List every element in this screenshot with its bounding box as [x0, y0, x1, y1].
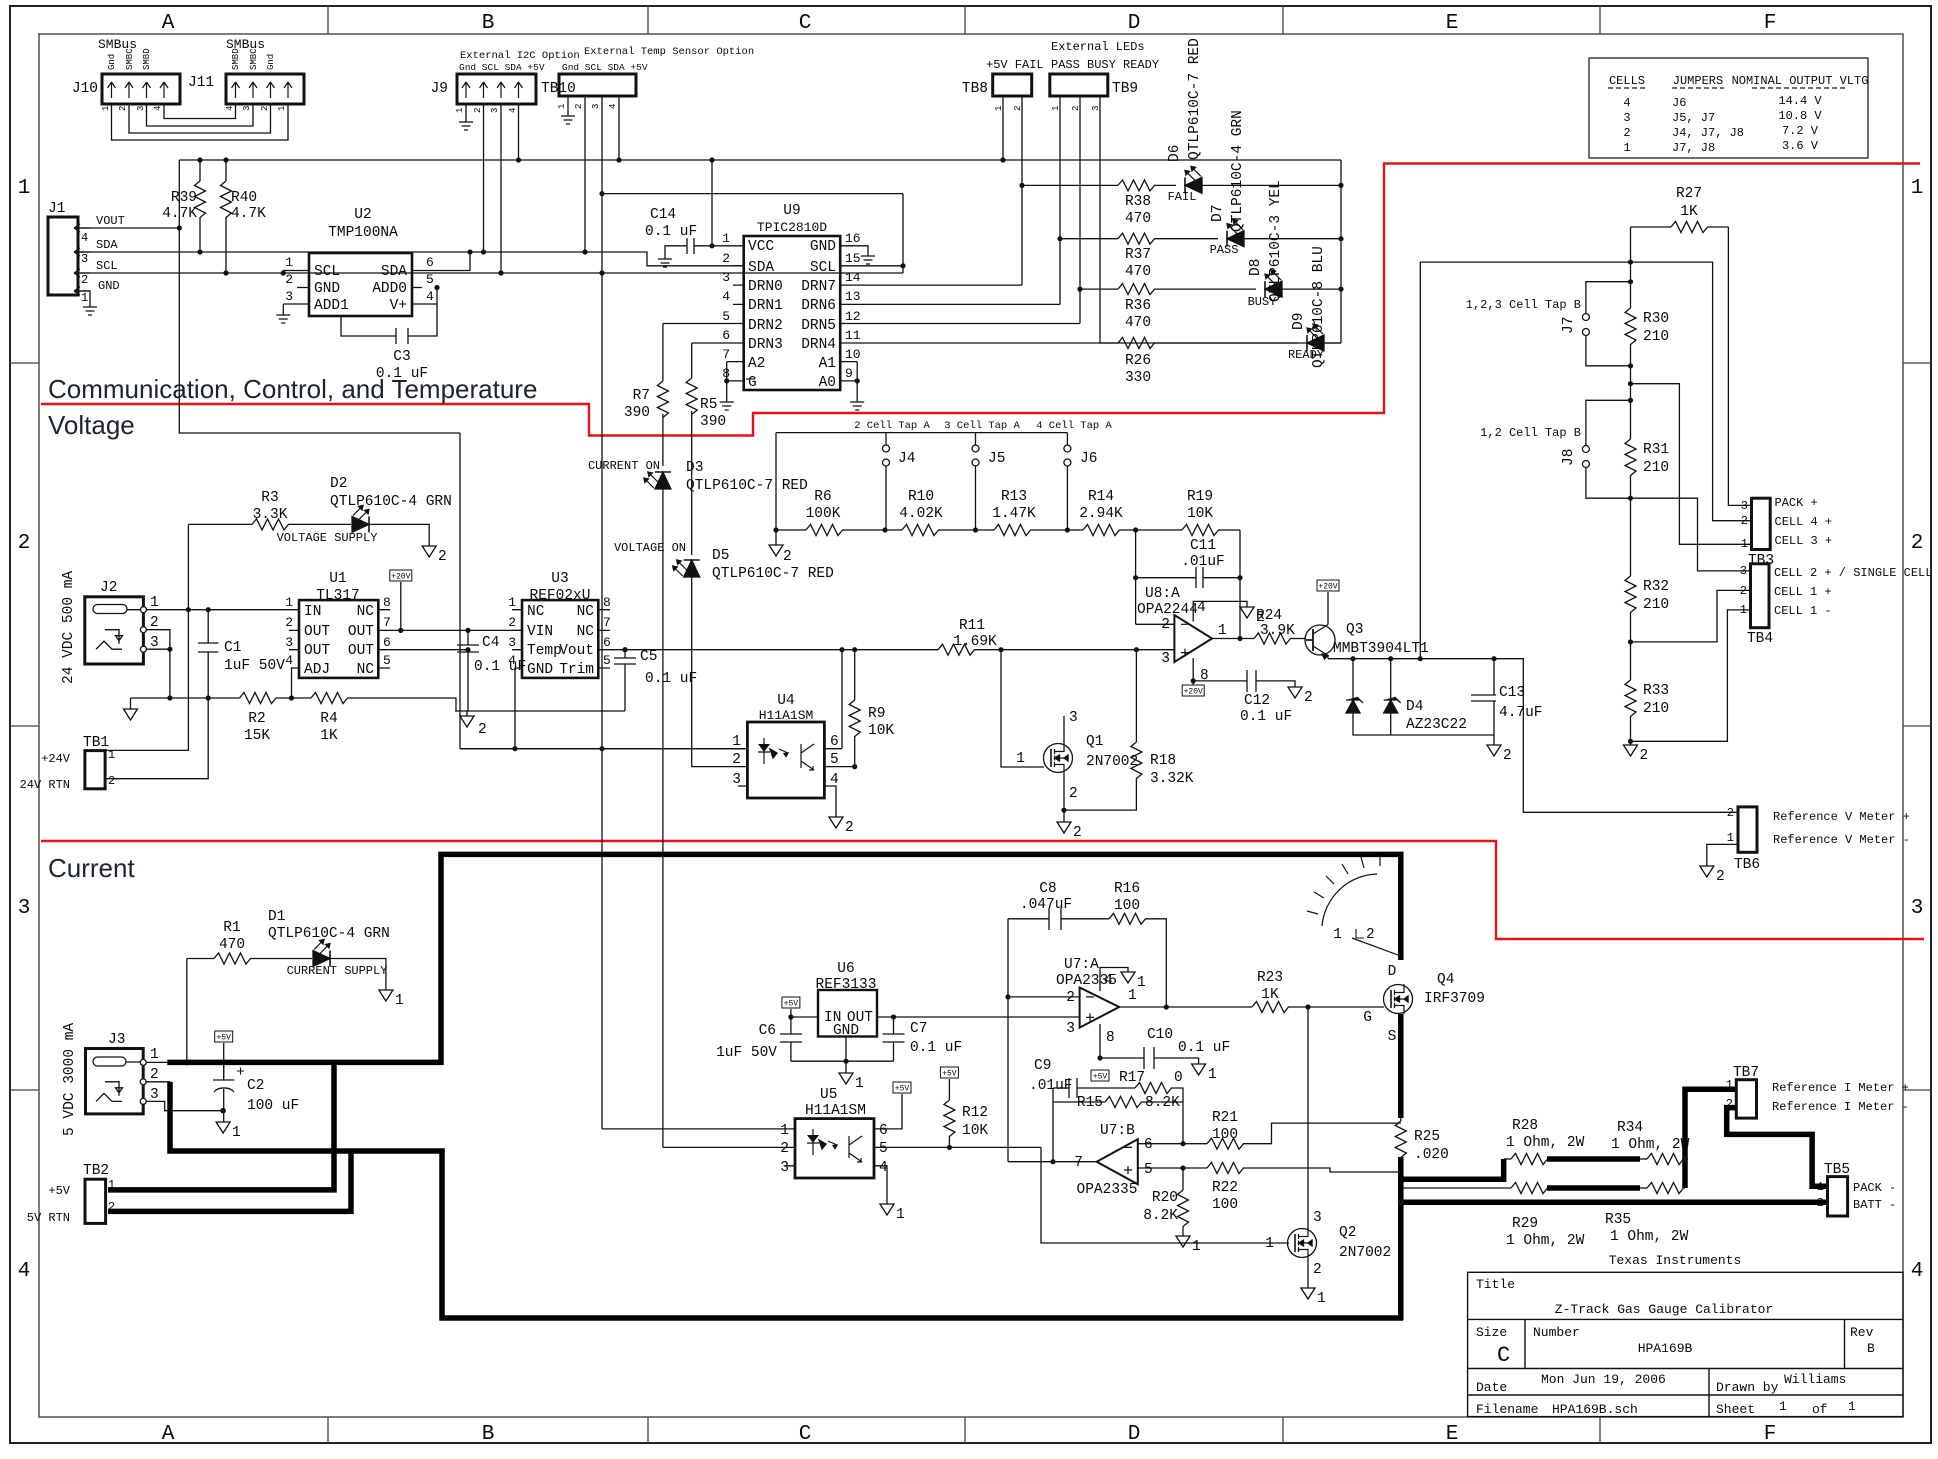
svg-text:3: 3: [1313, 1210, 1322, 1226]
labels R11 R9: [868, 618, 997, 739]
svg-text:FAIL: FAIL: [1168, 190, 1197, 204]
svg-text:C14: C14: [650, 207, 676, 223]
svg-text:2: 2: [1640, 748, 1649, 764]
labels U7A cluster: [1020, 881, 1230, 1056]
svg-text:GND: GND: [527, 662, 553, 678]
wire Q1 drain stub: [1063, 716, 1065, 743]
svg-text:1: 1: [1051, 106, 1061, 111]
svg-text:4: 4: [225, 106, 235, 111]
svg-text:R40: R40: [231, 190, 257, 206]
svg-text:DRN5: DRN5: [801, 318, 836, 334]
node C11 feedback column: [1136, 530, 1175, 624]
transistor Q2 2N7002: [1288, 1228, 1317, 1258]
svg-text:2: 2: [1726, 1097, 1733, 1111]
svg-text:DRN6: DRN6: [801, 298, 836, 314]
svg-text:5V RTN: 5V RTN: [27, 1211, 70, 1225]
svg-text:QTLP610C-3 YEL: QTLP610C-3 YEL: [1268, 180, 1284, 302]
svg-text:1: 1: [1333, 927, 1342, 943]
svg-text:C3: C3: [393, 349, 410, 365]
wire J10 pin2 to J11 pin2: [129, 104, 271, 133]
wire R19 to output node: [1239, 530, 1241, 578]
svg-text:VOLTAGE ON: VOLTAGE ON: [614, 541, 686, 555]
svg-text:CELLS: CELLS: [1609, 74, 1645, 88]
svg-text:1: 1: [1726, 1078, 1733, 1092]
svg-text:6: 6: [603, 635, 611, 650]
wire J3 pin1 stub: [146, 1062, 170, 1081]
capacitor C1: [198, 610, 218, 698]
connector TB5: [1828, 1177, 1848, 1216]
wire CELL1+ feed: [1631, 590, 1751, 642]
svg-text:Reference I Meter +: Reference I Meter +: [1772, 1081, 1909, 1095]
svg-text:Gnd SCL SDA +5V: Gnd SCL SDA +5V: [562, 62, 648, 73]
svg-text:1: 1: [1317, 1291, 1326, 1307]
labels U3: [530, 571, 591, 604]
thick wire TB2 pin2: [108, 1151, 351, 1211]
svg-text:SDA: SDA: [748, 260, 774, 276]
resistor R18: [1061, 650, 1142, 813]
labels TB8 TB9: [962, 81, 1138, 97]
resistor R22: [1207, 1163, 1401, 1174]
resistor R25: [1395, 1118, 1406, 1158]
svg-text:HPA169B: HPA169B: [1638, 1341, 1693, 1356]
resistor R11: [938, 644, 1174, 655]
ground U9 A0 pin9: [850, 396, 864, 410]
svg-text:C: C: [799, 1423, 812, 1446]
svg-text:10K: 10K: [962, 1123, 988, 1139]
ground U9 G pin8: [720, 396, 734, 410]
svg-text:R19: R19: [1187, 489, 1213, 505]
wire J2 pin1 to U1 IN: [146, 609, 299, 611]
wire CELL3+ feed: [1631, 384, 1752, 545]
labels TB3 TB4: [1774, 496, 1938, 618]
svg-text:3: 3: [732, 772, 741, 788]
svg-text:QTLP610C-7 RED: QTLP610C-7 RED: [686, 478, 808, 494]
svg-text:R16: R16: [1114, 881, 1140, 897]
node dots R11 rail: [622, 647, 1139, 652]
svg-text:J2: J2: [100, 580, 117, 596]
svg-text:TB7: TB7: [1733, 1065, 1759, 1081]
svg-text:D6: D6: [1167, 145, 1183, 162]
svg-text:3: 3: [18, 897, 31, 920]
resistor R38 FAIL row: [1022, 180, 1176, 191]
+5V flag U7A pin8: [1091, 1070, 1109, 1082]
thick wire R28-R34 link: [1547, 1156, 1640, 1162]
LED D6: [1185, 166, 1341, 193]
svg-text:SMBC: SMBC: [125, 48, 135, 70]
svg-text:2: 2: [260, 106, 270, 111]
transistor Q1 2N7002: [1044, 743, 1073, 773]
resistor R2: [240, 693, 312, 704]
svg-text:Reference V Meter +: Reference V Meter +: [1773, 810, 1910, 824]
meter arc Q4: [1307, 855, 1401, 956]
svg-text:2: 2: [1161, 617, 1170, 633]
op-amp U7:A OPA2335: [1008, 968, 1252, 1059]
resistor R6: [776, 525, 885, 536]
svg-text:D1: D1: [268, 909, 285, 925]
wire TB10 pin4: [618, 96, 620, 160]
labels TB6: [1727, 806, 1910, 847]
svg-text:0.1 uF: 0.1 uF: [645, 671, 697, 687]
svg-text:15K: 15K: [244, 728, 270, 744]
connector J10: [102, 74, 180, 104]
svg-text:Reference V Meter -: Reference V Meter -: [1773, 833, 1910, 847]
wire TB10 pin3: [601, 96, 603, 273]
svg-text:C7: C7: [910, 1021, 927, 1037]
ground U9 GND pin16: [861, 250, 875, 264]
svg-text:PACK -: PACK -: [1853, 1181, 1896, 1195]
resistor R19: [1136, 525, 1240, 536]
wire SDA net: [78, 252, 744, 266]
LED D9: [1307, 324, 1341, 351]
svg-text:1: 1: [896, 1207, 905, 1223]
svg-text:OPA2244: OPA2244: [1137, 602, 1198, 618]
resistor R33: [1625, 680, 1636, 717]
svg-text:2: 2: [1817, 1196, 1824, 1210]
svg-text:3: 3: [722, 270, 730, 285]
svg-text:C6: C6: [759, 1023, 776, 1039]
labels C3: [376, 349, 428, 382]
ground U5 pin4 ▽1: [880, 1204, 905, 1223]
svg-text:1K: 1K: [1261, 987, 1279, 1003]
svg-text:R24: R24: [1256, 608, 1282, 624]
svg-text:3: 3: [508, 635, 516, 650]
capacitor C9: [1053, 1078, 1105, 1098]
svg-text:S: S: [1388, 1029, 1397, 1045]
thick wire R34 to TB7 pin1: [1685, 1089, 1736, 1188]
connector J3 barrel jack: [86, 1049, 147, 1114]
svg-text:CELL 3 +: CELL 3 +: [1775, 534, 1833, 548]
svg-text:CELL 1 +: CELL 1 +: [1774, 585, 1832, 599]
node dots emitter rail: [1350, 656, 1496, 661]
svg-text:2: 2: [1366, 927, 1375, 943]
labels R39 R40: [162, 190, 266, 222]
jumper J4: [883, 445, 890, 530]
jumper J8: [1582, 400, 1630, 498]
wire J9 pin3: [500, 104, 502, 273]
wire TB9 pin1 to DRN6: [1059, 96, 1061, 304]
svg-text:OPA2335: OPA2335: [1077, 1182, 1138, 1198]
labels cell taps: [854, 420, 1112, 432]
svg-text:MMBT3904LT1: MMBT3904LT1: [1333, 641, 1429, 657]
wire TB6 pin1 to ground: [1707, 844, 1738, 866]
svg-text:0: 0: [1174, 1070, 1183, 1086]
svg-text:2: 2: [1741, 514, 1748, 528]
svg-text:TB3: TB3: [1748, 553, 1774, 569]
svg-text:R36: R36: [1125, 298, 1151, 314]
svg-text:10.8 V: 10.8 V: [1778, 109, 1822, 123]
svg-text:SDA: SDA: [96, 238, 118, 252]
svg-text:Z-Track Gas Gauge Calibrator: Z-Track Gas Gauge Calibrator: [1555, 1302, 1773, 1317]
wire Q1 gate feed: [1001, 650, 1044, 767]
svg-text:2 Cell Tap A: 2 Cell Tap A: [854, 420, 930, 432]
svg-text:ADD0: ADD0: [372, 281, 407, 297]
svg-text:4: 4: [1197, 600, 1206, 616]
capacitor C13: [1471, 659, 1496, 745]
svg-text:Drawn by: Drawn by: [1716, 1380, 1779, 1395]
svg-text:Number: Number: [1533, 1325, 1580, 1340]
svg-text:D7: D7: [1210, 205, 1226, 222]
svg-text:OUT: OUT: [348, 624, 374, 640]
svg-text:2: 2: [150, 1067, 159, 1083]
frame row numbers left: [18, 177, 31, 1283]
svg-text:100K: 100K: [806, 506, 841, 522]
svg-text:3: 3: [1091, 106, 1101, 111]
svg-text:7: 7: [1074, 1155, 1083, 1171]
svg-text:3: 3: [285, 635, 293, 650]
svg-text:QTLP610C-7 RED: QTLP610C-7 RED: [1187, 38, 1203, 160]
svg-text:14: 14: [845, 270, 861, 285]
ground chain ▽2: [769, 530, 783, 556]
svg-text:210: 210: [1643, 701, 1669, 717]
resistor R28: [1504, 1154, 1548, 1165]
svg-text:REF3133: REF3133: [816, 977, 877, 993]
svg-text:Williams: Williams: [1784, 1372, 1846, 1387]
svg-text:Gnd: Gnd: [266, 54, 276, 70]
ground rail C4 C5 U3: [455, 711, 625, 727]
svg-text:2: 2: [845, 820, 854, 836]
labels U8: [1137, 586, 1227, 684]
title block: [1468, 1272, 1903, 1416]
svg-text:R15: R15: [1077, 1095, 1103, 1111]
svg-text:U5: U5: [820, 1087, 837, 1103]
svg-text:QTLP610C-7 RED: QTLP610C-7 RED: [712, 566, 834, 582]
svg-text:.020: .020: [1414, 1147, 1449, 1163]
node dots voltage-left: [167, 607, 294, 701]
svg-text:.047uF: .047uF: [1020, 897, 1072, 913]
svg-text:1: 1: [1016, 751, 1025, 767]
svg-text:4.7K: 4.7K: [231, 206, 266, 222]
wire U2 SDA pin6 jog: [422, 252, 470, 271]
svg-text:4: 4: [426, 289, 434, 304]
svg-text:R26: R26: [1125, 353, 1151, 369]
section divider red line Communication/Voltage: [41, 164, 1920, 436]
svg-text:.01uF: .01uF: [1181, 554, 1225, 570]
svg-text:IN: IN: [304, 604, 321, 620]
thick wire Q4 source to R25: [1398, 1014, 1404, 1118]
svg-text:3.32K: 3.32K: [1150, 771, 1194, 787]
svg-text:1: 1: [1623, 141, 1630, 155]
labels C5: [640, 649, 697, 687]
svg-text:3: 3: [1911, 897, 1924, 920]
wire top node rail to Q3 emitter column: [1420, 262, 1751, 659]
resistor R16: [1100, 913, 1166, 1007]
svg-text:1: 1: [1740, 603, 1747, 617]
svg-text:8: 8: [1106, 1030, 1115, 1046]
wire J2 pin2 pin3 join: [146, 630, 170, 698]
svg-text:External LEDs: External LEDs: [1051, 40, 1145, 54]
svg-text:J4, J7, J8: J4, J7, J8: [1672, 126, 1744, 140]
svg-text:GND: GND: [810, 239, 836, 255]
wire R27 right to TB3 pin3: [1728, 227, 1751, 505]
svg-text:R11: R11: [959, 618, 985, 634]
svg-text:QTLP610C-4 GRN: QTLP610C-4 GRN: [1230, 110, 1246, 232]
capacitor C5: [614, 647, 636, 711]
svg-text:R31: R31: [1643, 442, 1669, 458]
svg-text:1 Ohm, 2W: 1 Ohm, 2W: [1506, 1135, 1585, 1151]
svg-text:SCL: SCL: [314, 264, 340, 280]
ground U2 ADD1: [276, 309, 290, 323]
svg-text:2: 2: [1503, 748, 1512, 764]
svg-text:2: 2: [438, 549, 447, 565]
svg-text:NC: NC: [527, 604, 545, 620]
svg-text:TB1: TB1: [83, 735, 109, 751]
wire U5 pin5 to Q2 gate: [1041, 1147, 1289, 1243]
labels D3 D5: [588, 459, 834, 582]
svg-text:J11: J11: [188, 75, 214, 91]
svg-text:2: 2: [508, 615, 516, 630]
labels R20 R21 R22: [1143, 1110, 1238, 1224]
svg-text:DRN3: DRN3: [748, 337, 783, 353]
svg-text:1.69K: 1.69K: [953, 634, 997, 650]
svg-text:1: 1: [150, 595, 159, 611]
node dots rail: [197, 157, 1005, 162]
wire TB8 pin2 to DRN7: [1021, 96, 1023, 285]
LED D5 VOLTAGE ON: [673, 560, 748, 767]
svg-text:1: 1: [1208, 1067, 1217, 1083]
svg-text:100: 100: [1212, 1197, 1238, 1213]
capacitor C4: [457, 628, 479, 711]
svg-text:3: 3: [591, 104, 601, 109]
transistor Q4 IRF3709: [1384, 984, 1413, 1014]
svg-text:R4: R4: [320, 711, 337, 727]
wire J9 pin2: [483, 104, 485, 252]
svg-text:12: 12: [845, 309, 861, 324]
svg-text:2: 2: [118, 106, 128, 111]
svg-text:1uF 50V: 1uF 50V: [716, 1045, 777, 1061]
svg-text:3: 3: [150, 1087, 159, 1103]
svg-text:2N7002: 2N7002: [1339, 1245, 1391, 1261]
svg-text:4: 4: [508, 653, 516, 668]
svg-text:24 VDC 500 mA: 24 VDC 500 mA: [61, 571, 77, 684]
resistor R37 PASS row: [1060, 233, 1218, 244]
wire J9 pin4: [518, 104, 520, 160]
svg-text:470: 470: [1125, 264, 1151, 280]
svg-text:R10: R10: [908, 489, 934, 505]
svg-text:1: 1: [1265, 1236, 1274, 1252]
op-amp U7:B OPA2335: [1008, 1139, 1207, 1184]
svg-text:Temp: Temp: [527, 643, 562, 659]
resistor R31: [1625, 439, 1636, 476]
LED D2 VOLTAGE SUPPLY: [352, 505, 429, 546]
resistor R26 READY row: [1100, 338, 1298, 349]
svg-text:R3: R3: [261, 490, 278, 506]
svg-text:210: 210: [1643, 329, 1669, 345]
svg-text:D9: D9: [1291, 313, 1307, 330]
svg-text:16: 16: [845, 231, 861, 246]
svg-text:1: 1: [455, 108, 465, 113]
svg-text:1,2 Cell Tap B: 1,2 Cell Tap B: [1480, 426, 1581, 440]
svg-text:4: 4: [153, 106, 163, 111]
svg-text:7: 7: [603, 615, 611, 630]
svg-text:TB9: TB9: [1112, 81, 1138, 97]
svg-text:Q2: Q2: [1339, 1225, 1356, 1241]
svg-text:TB8: TB8: [962, 81, 988, 97]
svg-text:J8: J8: [1561, 449, 1577, 466]
svg-text:1: 1: [557, 104, 567, 109]
connector TB4: [1751, 564, 1770, 628]
node dots U7A: [1005, 994, 1169, 1060]
svg-text:8.2K: 8.2K: [1145, 1095, 1180, 1111]
svg-text:R28: R28: [1512, 1118, 1538, 1134]
svg-text:6: 6: [879, 1123, 888, 1139]
svg-text:.01uF: .01uF: [1029, 1078, 1073, 1094]
labels U2: [328, 207, 398, 241]
svg-text:3: 3: [81, 252, 88, 266]
svg-text:PASS: PASS: [1210, 243, 1239, 257]
ground R33 ▽2: [1624, 745, 1649, 764]
svg-text:C10: C10: [1147, 1027, 1173, 1043]
svg-text:VOLTAGE SUPPLY: VOLTAGE SUPPLY: [277, 531, 378, 545]
ground C10 ▽1: [1192, 1064, 1217, 1083]
svg-text:C11: C11: [1190, 538, 1216, 554]
svg-text:2: 2: [1071, 106, 1081, 111]
+5V flag R12: [940, 1067, 958, 1079]
svg-text:A1: A1: [819, 356, 836, 372]
svg-text:NC: NC: [577, 624, 595, 640]
svg-text:1 Ohm, 2W: 1 Ohm, 2W: [1610, 1229, 1689, 1245]
ground rail J2 ▽2: [124, 698, 240, 720]
resistor R24: [1254, 633, 1306, 644]
svg-text:2: 2: [1304, 690, 1313, 706]
ground Q1 ▽2: [1057, 822, 1082, 841]
svg-text:A2: A2: [748, 356, 765, 372]
svg-text:C9: C9: [1034, 1058, 1051, 1074]
svg-text:4: 4: [285, 653, 293, 668]
svg-text:1: 1: [150, 1047, 159, 1063]
svg-text:3: 3: [242, 106, 252, 111]
svg-text:1: 1: [1779, 1399, 1787, 1414]
connector J11: [226, 74, 304, 104]
svg-text:2: 2: [285, 272, 293, 287]
svg-text:1K: 1K: [320, 728, 338, 744]
svg-text:11: 11: [845, 328, 861, 343]
svg-text:TB4: TB4: [1747, 631, 1773, 647]
node dots top-left: [177, 191, 906, 276]
svg-text:2: 2: [18, 532, 31, 555]
svg-text:R25: R25: [1414, 1129, 1440, 1145]
svg-text:1: 1: [508, 595, 516, 610]
svg-text:CELL 1 -: CELL 1 -: [1774, 604, 1832, 618]
svg-text:ADD1: ADD1: [314, 298, 349, 314]
wire TB9 pin2 to DRN5: [1079, 96, 1081, 324]
+5V flag C2: [215, 1031, 233, 1078]
svg-text:Communication, Control, and Te: Communication, Control, and Temperature: [48, 374, 537, 404]
frame row ticks left: [10, 363, 39, 1090]
svg-text:SMBD: SMBD: [231, 48, 241, 70]
wire VOUT feed column: [460, 433, 747, 749]
LED D3 CURRENT ON: [644, 472, 671, 1147]
svg-text:Gnd SCL SDA +5V: Gnd SCL SDA +5V: [459, 62, 545, 73]
resistor R9: [849, 650, 860, 767]
thick wire TB7 pin2 down to TB5 pin1: [1401, 1108, 1828, 1203]
svg-text:TB6: TB6: [1734, 857, 1760, 873]
svg-text:REF02xU: REF02xU: [530, 588, 591, 604]
svg-text:1.47K: 1.47K: [992, 506, 1036, 522]
svg-text:A: A: [162, 1423, 175, 1446]
svg-text:5: 5: [426, 272, 434, 287]
ground TB6 ▽2: [1700, 866, 1725, 885]
wire Q2 source ground: [1307, 1258, 1309, 1288]
svg-text:VOUT: VOUT: [96, 214, 125, 228]
+20V flag U1: [390, 570, 412, 633]
svg-text:2: 2: [1013, 106, 1023, 111]
svg-text:10K: 10K: [868, 723, 894, 739]
svg-text:C4: C4: [482, 635, 499, 651]
node dots U7B: [1050, 1141, 1185, 1171]
resistor R13: [976, 525, 1068, 536]
svg-text:1 Ohm, 2W: 1 Ohm, 2W: [1611, 1137, 1690, 1153]
svg-text:DRN1: DRN1: [748, 298, 783, 314]
